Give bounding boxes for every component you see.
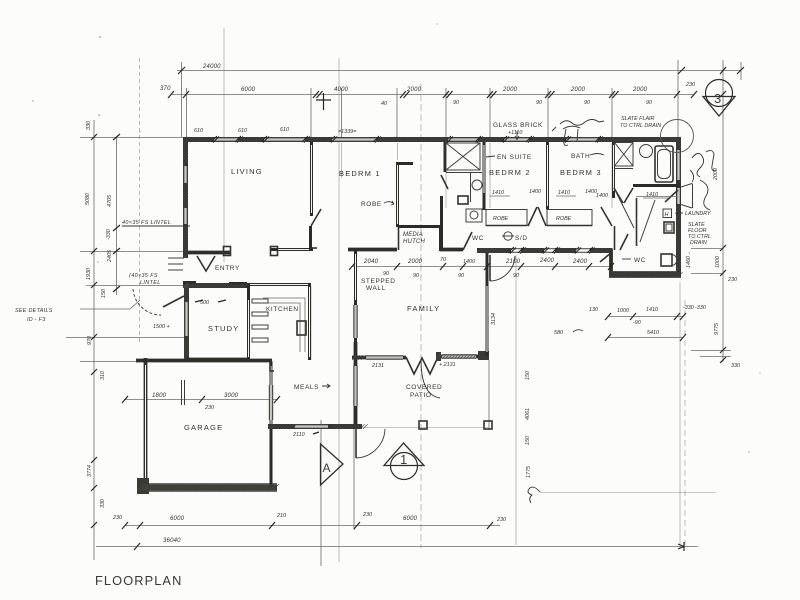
- svg-text:4705: 4705: [107, 194, 113, 207]
- svg-text:+ 2131: + 2131: [439, 362, 456, 368]
- ensuite toilet: [458, 196, 468, 204]
- family south east sills: [442, 355, 476, 359]
- dim vertical left x116: [116, 137, 118, 295]
- svg-text:H: H: [665, 212, 669, 218]
- study porch arc dashed: [133, 289, 161, 315]
- dim line right y350: [691, 350, 731, 352]
- ensuite door leaf: [463, 232, 472, 250]
- extension line x612 top: [611, 88, 613, 140]
- laundry west wall: [636, 198, 638, 246]
- laundry trough inner: [666, 224, 672, 231]
- study south wall: [187, 358, 250, 362]
- right ticks x723: [720, 245, 726, 363]
- see-details connector: [80, 300, 140, 309]
- dim line garage y399: [124, 399, 278, 401]
- linen box diagonals: [446, 143, 480, 170]
- kitchen north core: [248, 284, 308, 286]
- svg-text:330: 330: [731, 363, 740, 369]
- bottom ticks y546: [134, 543, 140, 550]
- study west window: [185, 302, 188, 336]
- connector y361 left: [80, 361, 136, 363]
- wc pan: [661, 254, 672, 266]
- connector y337 left: [66, 337, 186, 339]
- extension line x741 top: [740, 62, 742, 80]
- svg-text:210: 210: [276, 513, 286, 519]
- extension line x446 top: [445, 88, 447, 140]
- ticks top line2: [168, 91, 697, 98]
- hall toilet bowl: [470, 211, 478, 219]
- north wall window sills: [214, 138, 598, 142]
- extension line x354 family corner: [353, 363, 355, 530]
- svg-text:580: 580: [554, 330, 563, 336]
- bath vanity line: [614, 168, 633, 170]
- svg-text:3774: 3774: [87, 465, 93, 477]
- svg-text:5410: 5410: [647, 330, 659, 336]
- bottom arrow y546: [678, 542, 684, 551]
- svg-text:LAUNDRY: LAUNDRY: [685, 211, 711, 217]
- svg-text:KITCHEN: KITCHEN: [266, 306, 299, 313]
- wall hatching texture: [137, 137, 683, 491]
- section line A vertical: [320, 420, 322, 566]
- svg-text:PATIO: PATIO: [410, 392, 432, 399]
- laundry dim line: [636, 196, 678, 198]
- svg-text:ROBE: ROBE: [493, 216, 509, 222]
- svg-text:-330: -330: [695, 305, 706, 311]
- svg-text:40×35 FS LINTEL: 40×35 FS LINTEL: [122, 220, 171, 226]
- meals bay window: [270, 385, 273, 420]
- patio east edge: [488, 360, 490, 430]
- ensuite bedrm2 divider: [483, 142, 486, 210]
- svg-text:2110: 2110: [292, 432, 305, 438]
- dim line right y273: [691, 273, 723, 275]
- laundry arrow: [676, 211, 683, 215]
- ensuite partition: [470, 172, 472, 202]
- family south wall east: [436, 355, 482, 359]
- svg-text:2400: 2400: [572, 259, 588, 265]
- bedrm3 bath divider: [612, 142, 615, 198]
- svg-text:40: 40: [381, 101, 387, 107]
- svg-text:STEPPED: STEPPED: [361, 278, 396, 285]
- garage south wall edge lines: [137, 484, 277, 491]
- north wall window segment 3: [332, 138, 376, 141]
- garage west wall core: [145, 365, 147, 480]
- svg-text:130: 130: [589, 307, 598, 313]
- svg-text:1400: 1400: [463, 259, 475, 265]
- svg-text:230: 230: [685, 82, 695, 88]
- extension line x341: [341, 88, 343, 140]
- wing south wall seg4: [521, 248, 544, 253]
- svg-text:24000: 24000: [202, 64, 221, 70]
- ensuite arrow: [486, 156, 495, 157]
- svg-text:STUDY: STUDY: [208, 324, 239, 333]
- svg-text:90: 90: [458, 273, 464, 279]
- top cross mark: [316, 93, 331, 110]
- bath tub: [655, 146, 673, 182]
- family west window: [354, 305, 357, 338]
- north wall window segment 2: [264, 138, 305, 141]
- svg-text:2000: 2000: [406, 87, 422, 93]
- svg-text:3000: 3000: [224, 393, 239, 399]
- svg-text:2000: 2000: [502, 87, 518, 93]
- bedroom door leaves between robes: [528, 207, 546, 226]
- svg-text:610: 610: [194, 128, 203, 134]
- svg-text:2000: 2000: [632, 87, 648, 93]
- meals dim tick: [313, 432, 319, 434]
- svg-text:6000: 6000: [241, 87, 256, 93]
- connector y285 left: [86, 285, 183, 287]
- svg-text:ENTRY: ENTRY: [215, 265, 240, 272]
- hall dim row ticks: [349, 263, 614, 270]
- living south wall east part: [271, 248, 313, 251]
- garage west wall: [144, 358, 148, 487]
- kitchen east core: [309, 287, 311, 357]
- bath tub inner: [658, 150, 671, 179]
- svg-text:MEALS: MEALS: [294, 384, 319, 391]
- centerline vertical x139 dashed: [139, 58, 141, 343]
- svg-text:1410: 1410: [646, 307, 658, 313]
- family south wall west: [330, 424, 362, 429]
- extension line x677 top: [677, 60, 679, 137]
- svg-text:SLATE FLAIR: SLATE FLAIR: [621, 116, 655, 122]
- bath door leaf: [620, 234, 628, 250]
- svg-text:330: 330: [86, 121, 92, 130]
- wc bump west wall: [609, 249, 613, 276]
- entry kitchen wall stub: [229, 282, 247, 285]
- svg-text:GLASS BRICK: GLASS BRICK: [493, 122, 543, 129]
- svg-text:3134: 3134: [491, 313, 497, 325]
- family south window sills: [366, 356, 403, 360]
- svg-text:BEDRM 3: BEDRM 3: [560, 168, 602, 177]
- bedrm2 divider core: [547, 145, 549, 206]
- family south east window: [442, 355, 476, 358]
- right top ticks: [720, 67, 726, 97]
- bath south wall: [633, 184, 679, 187]
- hall toilet box: [466, 209, 482, 222]
- svg-text:90: 90: [513, 273, 519, 279]
- centerline vertical x516: [515, 255, 517, 545]
- wc south wall edges: [609, 272, 681, 278]
- patio west window: [354, 366, 357, 406]
- svg-text:2405: 2405: [107, 249, 113, 263]
- yard ticks y337: [605, 334, 686, 341]
- svg-text:1410: 1410: [558, 190, 570, 196]
- bedrm1 door leaf: [311, 209, 321, 226]
- smoke detector symbol: [504, 232, 512, 240]
- svg-text:150: 150: [525, 436, 531, 445]
- svg-text:SEE DETAILS: SEE DETAILS: [15, 308, 53, 314]
- svg-text:+1110: +1110: [508, 130, 522, 136]
- laundry exterior door flare: [681, 184, 693, 209]
- svg-text:90: 90: [536, 100, 542, 106]
- robe wall bedrm1: [396, 162, 399, 227]
- west wall window segments: [184, 166, 187, 224]
- entry door leaves: [197, 256, 215, 271]
- family west window sills: [354, 305, 357, 338]
- svg-text:1410: 1410: [646, 192, 658, 198]
- section symbol 3 circle: [706, 80, 733, 107]
- patio door arc: [356, 429, 385, 458]
- kitchen meals divider light: [310, 286, 312, 360]
- dim line right y356: [700, 356, 731, 358]
- dim line yard y316: [608, 316, 683, 318]
- extension line x397 top: [396, 88, 398, 140]
- north wall window segment 4: [448, 138, 478, 141]
- dim line top sub: [171, 94, 694, 96]
- svg-text:2131: 2131: [371, 363, 384, 369]
- west wall window sills: [184, 166, 188, 224]
- svg-text:GARAGE: GARAGE: [184, 423, 223, 432]
- svg-text:TO CTRL DRAIN: TO CTRL DRAIN: [620, 123, 661, 129]
- yard dim ticks y316: [605, 313, 686, 320]
- wc pan bowl: [672, 255, 677, 265]
- svg-text:1460→: 1460→: [686, 251, 692, 268]
- svg-text:1800: 1800: [152, 393, 167, 399]
- ensuite divider core: [483, 145, 485, 193]
- symbol 1 circle: [391, 453, 418, 480]
- svg-text:S/D: S/D: [515, 235, 528, 242]
- media hutch top wall: [398, 225, 441, 228]
- svg-text:1000: 1000: [715, 256, 721, 268]
- svg-text:BEDRM 2: BEDRM 2: [489, 168, 531, 177]
- svg-text:-90: -90: [633, 320, 641, 326]
- study garage north wall: [136, 359, 272, 363]
- robe wall core: [397, 165, 399, 224]
- bath shower box: [615, 143, 634, 167]
- entry porch south wall: [183, 283, 247, 288]
- svg-text:230: 230: [496, 517, 506, 523]
- east wall window sills: [677, 150, 681, 180]
- svg-text:A: A: [323, 461, 331, 475]
- bedrm3 divider core: [613, 145, 615, 191]
- centerline vertical x339: [338, 58, 340, 562]
- extension line left wall up: [181, 62, 183, 137]
- pantry shelf 2: [252, 325, 268, 329]
- svg-text:1500 +: 1500 +: [153, 324, 170, 330]
- wc door leaf: [600, 252, 612, 262]
- family east wall: [486, 252, 489, 356]
- west living wall: [183, 137, 188, 258]
- bath shower X: [615, 143, 634, 167]
- svg-text:LINTEL: LINTEL: [140, 280, 161, 286]
- north wall window segment 6: [566, 138, 598, 141]
- laundry H box: [663, 209, 672, 218]
- robe arrow: [384, 201, 394, 205]
- wing south wall seg5: [555, 248, 576, 253]
- study east wall: [247, 284, 250, 360]
- right margin curve: [700, 180, 710, 210]
- garage sw corner block: [137, 478, 149, 494]
- dim line bottom y546: [96, 546, 698, 548]
- robe wall nib: [396, 162, 413, 165]
- svg-text:36040: 36040: [163, 538, 181, 544]
- dim line yard y492: [540, 492, 716, 494]
- living south wall west part: [183, 251, 231, 255]
- kitchen island: [297, 321, 306, 335]
- svg-text:610: 610: [280, 127, 289, 133]
- living bedrm1 divider core: [311, 145, 313, 213]
- svg-text:1775: 1775: [526, 465, 532, 478]
- wing south wall seg2: [440, 248, 463, 252]
- hall linen wall: [444, 142, 447, 172]
- north wall window segment 1: [214, 138, 238, 141]
- svg-text:BATH: BATH: [571, 153, 590, 160]
- svg-text:9775: 9775: [714, 322, 720, 335]
- garage east meals west wall: [270, 361, 273, 487]
- family south wall windows: [352, 356, 406, 360]
- hall family door leaf: [489, 255, 491, 281]
- sliding note scribble: [552, 120, 604, 146]
- entry jamb post: [224, 247, 231, 256]
- living south tail: [311, 247, 317, 249]
- wing south wall seg3: [477, 248, 511, 253]
- svg-text:WALL: WALL: [366, 285, 386, 292]
- patio curve detail: [421, 360, 440, 398]
- svg-text:1410: 1410: [492, 190, 504, 196]
- connector y251 left: [80, 251, 183, 253]
- meals bay window sills: [269, 385, 272, 420]
- svg-text:2040: 2040: [363, 259, 379, 265]
- garage dim ticks: [122, 396, 280, 403]
- svg-text:970: 970: [87, 336, 93, 345]
- svg-text:2000: 2000: [570, 87, 586, 93]
- svg-text:1930: 1930: [86, 268, 92, 280]
- garage south wall: [137, 484, 277, 491]
- family sw end post: [436, 352, 441, 361]
- dashed vertical x685: [684, 300, 686, 545]
- svg-text:FAMILY: FAMILY: [407, 304, 440, 313]
- wc west upper wall: [614, 226, 616, 250]
- svg-text:370: 370: [160, 86, 171, 92]
- svg-text:610: 610: [238, 128, 247, 134]
- robe box 1: [486, 210, 527, 226]
- svg-text:1000: 1000: [617, 308, 629, 314]
- patio post 2: [484, 421, 492, 429]
- left col ticks x94: [91, 134, 97, 528]
- extension line x548 top: [547, 88, 549, 140]
- garage door marks: [182, 380, 185, 405]
- meals south window sills: [295, 425, 328, 429]
- svg-text:5080: 5080: [85, 193, 91, 205]
- extension line x680 right: [679, 282, 681, 548]
- bedrm2 bedrm3 divider: [546, 142, 549, 209]
- pantry shelf 3: [252, 338, 268, 342]
- svg-text:BEDRM 1: BEDRM 1: [339, 169, 381, 178]
- svg-text:2000: 2000: [713, 168, 719, 181]
- family sw corner: [354, 342, 358, 429]
- detail reference circle: [661, 120, 694, 153]
- laundry door leaf: [665, 190, 678, 202]
- wc dash: [622, 258, 631, 260]
- svg-text:LIVING: LIVING: [231, 167, 263, 176]
- svg-text:EN SUITE: EN SUITE: [497, 154, 532, 161]
- patio post 1: [419, 421, 427, 429]
- study door leaf: [163, 296, 184, 307]
- svg-text:150: 150: [525, 371, 531, 380]
- study west window sills: [185, 302, 189, 336]
- svg-text:WC: WC: [634, 257, 646, 264]
- svg-text:COVERED: COVERED: [406, 384, 442, 391]
- dim row hall y266: [352, 266, 612, 268]
- svg-text:2100: 2100: [505, 259, 521, 265]
- bath door leaves: [614, 188, 633, 203]
- dim line bottom y525: [125, 525, 500, 527]
- svg-text:=1339=: =1339=: [338, 129, 356, 135]
- family east wall core: [486, 286, 488, 352]
- robe box 2: [547, 210, 592, 226]
- svg-text:6000: 6000: [170, 516, 185, 522]
- svg-text:3: 3: [714, 91, 721, 106]
- study tick: [195, 300, 226, 302]
- svg-text:MEDIA: MEDIA: [403, 232, 423, 238]
- svg-text:90: 90: [413, 273, 419, 279]
- svg-text:230: 230: [362, 512, 372, 518]
- section symbol A triangle: [321, 444, 344, 485]
- svg-text:4061: 4061: [525, 408, 531, 420]
- meals south window: [295, 425, 328, 428]
- kitchen bench outline: [263, 298, 305, 352]
- north wall window segment 5: [504, 138, 529, 141]
- patio south edge: [352, 427, 489, 429]
- bedrm3 door leaf: [601, 207, 612, 226]
- living bedrm1 divider: [310, 142, 313, 216]
- media hutch east wall: [439, 226, 442, 251]
- extension line x311: [310, 88, 312, 140]
- east wall window segment: [677, 150, 680, 180]
- svg-text:ROBE: ROBE: [361, 201, 382, 208]
- entry south jamb: [183, 281, 196, 284]
- paper specks: [32, 23, 761, 453]
- laundry trough: [664, 222, 674, 233]
- east wall laundry door gap: [677, 188, 680, 204]
- yard 580 squiggle: [573, 330, 583, 332]
- bath arrow: [590, 154, 604, 156]
- wing dim small lines: [490, 195, 576, 197]
- living south jamb cap: [271, 247, 278, 256]
- pantry shelf 1: [252, 312, 268, 316]
- patio west window sills: [354, 366, 357, 406]
- svg-text:70: 70: [440, 257, 446, 263]
- north wing wall: [183, 137, 681, 142]
- bath basin: [640, 145, 653, 158]
- ticks top line1: [178, 67, 744, 74]
- linen shower box: [446, 143, 480, 170]
- svg-text:-330: -330: [683, 305, 694, 311]
- dim vertical x723 right: [722, 60, 724, 362]
- centerline vertical x224: [223, 28, 225, 262]
- y492 start hook: [528, 487, 540, 503]
- svg-text:90: 90: [646, 100, 652, 106]
- wing south wall seg1 stepped: [348, 248, 397, 252]
- dim line yard y337: [608, 337, 683, 339]
- svg-text:ROBE: ROBE: [556, 216, 572, 222]
- family se corner post: [478, 351, 489, 360]
- extension line x490 top: [489, 88, 491, 140]
- right margin scribble: [690, 150, 716, 182]
- ensuite bench line: [446, 172, 482, 174]
- laundry swing diagonals: [615, 190, 655, 242]
- kitchen bench inner: [263, 303, 300, 352]
- kitchen east wall: [308, 284, 311, 360]
- svg-text:1400: 1400: [596, 193, 608, 199]
- left col ticks x116: [113, 134, 120, 292]
- hall door leaf: [441, 175, 448, 189]
- wing south wall seg6: [590, 248, 612, 253]
- lintel underline: [122, 225, 190, 227]
- wc bump south wall: [609, 272, 681, 277]
- extension line x186: [186, 88, 188, 137]
- kitchen north wall: [245, 283, 311, 286]
- svg-text:90: 90: [383, 271, 389, 277]
